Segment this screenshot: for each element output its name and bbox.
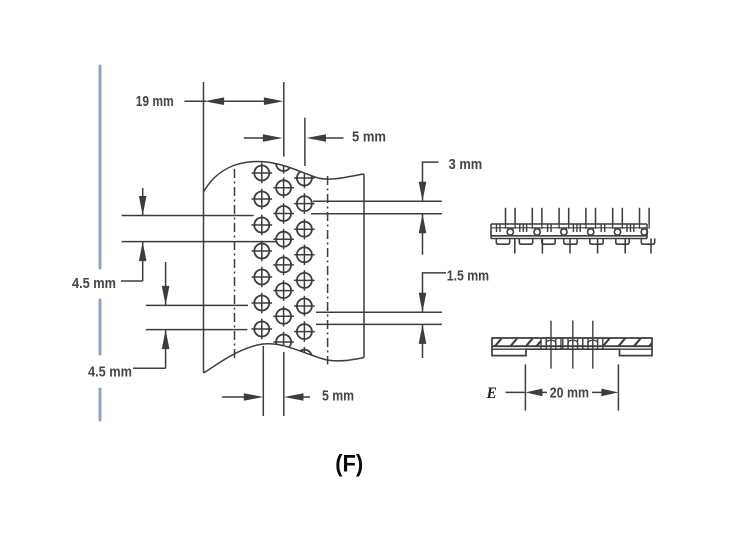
svg-text:20 mm: 20 mm — [550, 385, 589, 401]
svg-text:19 mm: 19 mm — [136, 94, 174, 110]
svg-text:4.5 mm: 4.5 mm — [88, 365, 132, 381]
svg-text:5 mm: 5 mm — [322, 389, 354, 405]
svg-text:3 mm: 3 mm — [449, 157, 483, 173]
svg-text:1.5 mm: 1.5 mm — [447, 269, 489, 285]
svg-text:(F): (F) — [335, 451, 363, 478]
svg-text:4.5 mm: 4.5 mm — [72, 276, 116, 292]
svg-text:E: E — [486, 385, 497, 402]
svg-text:5 mm: 5 mm — [352, 129, 386, 145]
